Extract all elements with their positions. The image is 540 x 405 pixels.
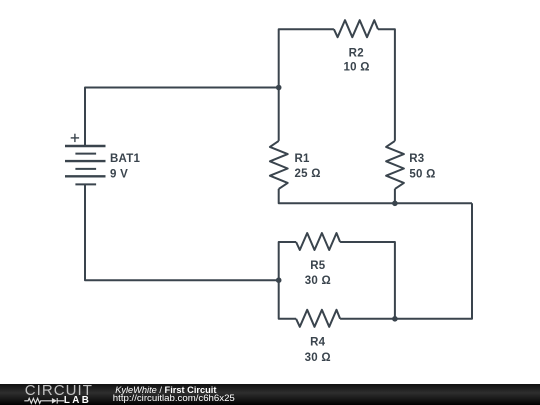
battery + sign xyxy=(71,134,79,142)
CircuitLab logo icon (resistor + diode) xyxy=(23,396,67,405)
svg-text:9 V: 9 V xyxy=(110,168,128,180)
footer bar xyxy=(0,384,540,405)
footer attribution line 1 xyxy=(115,386,216,395)
wire node A down to R1 top xyxy=(278,88,280,141)
footer url line 2 xyxy=(113,394,235,404)
CircuitLab logo text CIRCUIT xyxy=(25,383,93,398)
wire battery- down and right to node C xyxy=(85,184,279,280)
wire R4 right lead to node D xyxy=(340,318,395,320)
svg-text:R5: R5 xyxy=(310,260,326,272)
wire battery+ to node A xyxy=(85,88,279,147)
svg-text:R3: R3 xyxy=(409,153,424,165)
resistor R5 xyxy=(296,233,340,250)
svg-text:BAT1: BAT1 xyxy=(110,153,141,165)
wire lower-left C: R5 lead, left vertical, R4 lead xyxy=(279,242,296,319)
wire node A up and to R2 left xyxy=(279,29,334,87)
CircuitLab logo text LAB xyxy=(64,396,91,405)
wire R3 bottom lead xyxy=(394,189,396,203)
svg-text:30 Ω: 30 Ω xyxy=(305,275,331,287)
svg-text:25 Ω: 25 Ω xyxy=(295,168,321,180)
svg-text:R1: R1 xyxy=(295,153,311,165)
node A junction xyxy=(276,85,282,91)
svg-text:30 Ω: 30 Ω xyxy=(305,352,331,364)
node C junction xyxy=(276,277,282,283)
resistor R4 xyxy=(296,310,340,327)
svg-text:50 Ω: 50 Ω xyxy=(409,169,435,181)
resistor R1 xyxy=(270,141,288,189)
resistor R2 xyxy=(334,20,378,37)
svg-text:R2: R2 xyxy=(349,47,364,59)
wire R1 bottom lead joining middle horizontal xyxy=(279,189,472,203)
wire right side down to node D xyxy=(395,203,472,318)
wire R5 right to node D xyxy=(340,242,395,319)
battery BAT1 plates xyxy=(65,88,106,185)
svg-text:10 Ω: 10 Ω xyxy=(343,62,369,74)
svg-text:R4: R4 xyxy=(310,337,326,349)
resistor R3 xyxy=(386,141,404,189)
node D junction xyxy=(392,316,398,322)
node B junction xyxy=(392,201,398,207)
wire R2 right down to R3 top xyxy=(378,29,395,141)
